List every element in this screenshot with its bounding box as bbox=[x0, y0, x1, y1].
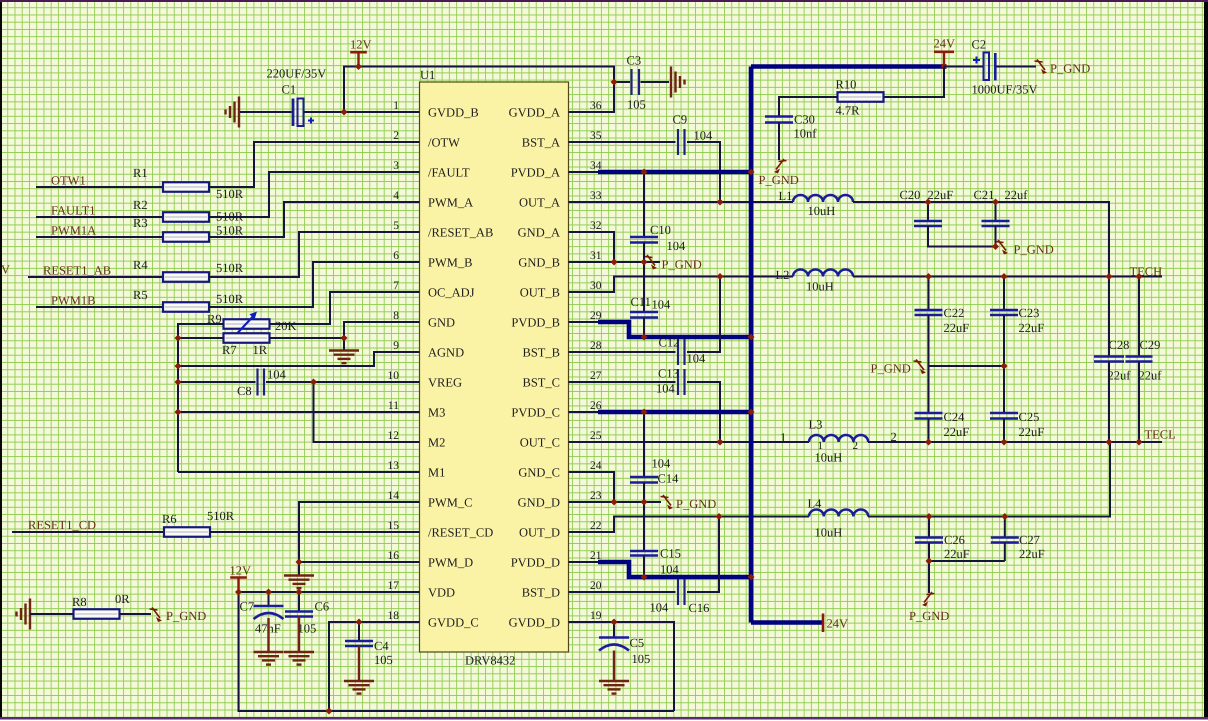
svg-text:M2: M2 bbox=[428, 436, 445, 450]
power port P_GND at GND_B bbox=[645, 255, 658, 270]
power port P_GND at C22 bus bbox=[914, 360, 927, 375]
sheet border top bbox=[0, 0, 1208, 2]
svg-text:OTW1: OTW1 bbox=[51, 174, 86, 188]
capacitor C6 105 bbox=[298, 592, 300, 611]
junction C1/pin1 bbox=[341, 109, 348, 116]
svg-text:L4: L4 bbox=[808, 497, 823, 511]
svg-text:BST_B: BST_B bbox=[522, 346, 560, 360]
svg-text:C30: C30 bbox=[794, 113, 815, 127]
wire PVDD_B stub bbox=[569, 321, 599, 323]
svg-text:R6: R6 bbox=[162, 512, 177, 526]
wire pin 1 GVDD_B stub bbox=[344, 111, 420, 113]
C5 ground stub bbox=[613, 651, 615, 682]
svg-text:22uF: 22uF bbox=[1019, 425, 1045, 439]
wire PVDD_A stub bbox=[569, 171, 599, 173]
junction at 1004.8,516.5 bbox=[1001, 513, 1008, 520]
wire C3 left bbox=[614, 81, 630, 83]
svg-text:C22: C22 bbox=[944, 306, 965, 320]
svg-text:23: 23 bbox=[590, 490, 602, 502]
svg-text:L2: L2 bbox=[776, 268, 790, 282]
junction C23 on TECH bbox=[1001, 273, 1008, 280]
svg-text:PVDD_C: PVDD_C bbox=[511, 406, 560, 420]
svg-text:510R: 510R bbox=[216, 224, 244, 238]
junction 12V tap top bbox=[355, 63, 362, 70]
capacitor C23 22uF bbox=[1003, 277, 1005, 311]
svg-text:22uF: 22uF bbox=[944, 425, 970, 439]
junction at 720,442 bbox=[717, 439, 724, 446]
inductor L4 10uH bbox=[809, 510, 868, 517]
svg-text:25: 25 bbox=[590, 430, 602, 442]
wire BST_A to C9 bbox=[569, 141, 676, 143]
resistor R2 bbox=[163, 212, 209, 222]
R9 wiper arrow bbox=[238, 312, 258, 334]
svg-text:9: 9 bbox=[393, 340, 399, 352]
svg-text:4.7R: 4.7R bbox=[836, 104, 861, 118]
svg-text:M3: M3 bbox=[428, 406, 445, 420]
svg-text:16: 16 bbox=[388, 550, 400, 562]
junction C26 bus bbox=[926, 558, 933, 565]
junction bus-R7 bbox=[175, 335, 182, 342]
svg-text:P_GND: P_GND bbox=[759, 173, 799, 187]
wire L3 to TECL bbox=[868, 441, 1162, 443]
junction C11 bottom on PVDD_B bbox=[641, 334, 648, 341]
capacitor C25 22uF bbox=[1003, 366, 1005, 413]
thick wire 24V bus vertical bbox=[749, 67, 754, 623]
power port P_GND at C30 bbox=[774, 159, 787, 174]
svg-text:7: 7 bbox=[393, 280, 399, 292]
power port 24V bottom bbox=[822, 614, 825, 633]
capacitor C30 10nf bbox=[765, 117, 793, 123]
junction at 928.5,276.5 bbox=[925, 273, 932, 280]
junction C4 tap bbox=[356, 619, 363, 626]
svg-text:P_GND: P_GND bbox=[676, 497, 716, 511]
svg-text:22uF: 22uF bbox=[928, 188, 954, 202]
wire P_GND bus C26-C27 bbox=[929, 560, 1005, 562]
junction C10 bottom bbox=[641, 259, 648, 266]
svg-text:/OTW: /OTW bbox=[428, 136, 460, 150]
wire pin9 AGND to left bus bbox=[178, 352, 420, 366]
svg-text:20: 20 bbox=[590, 580, 602, 592]
svg-text:TECL: TECL bbox=[1145, 428, 1176, 442]
wire VDD pin 17 bbox=[239, 591, 420, 593]
capacitor C5 105 bbox=[613, 622, 615, 638]
svg-text:105: 105 bbox=[632, 652, 651, 666]
junction at 928,202 bbox=[925, 199, 932, 206]
ground under C7 bbox=[254, 652, 284, 665]
svg-text:R2: R2 bbox=[133, 198, 148, 212]
wire RESET1_CD to R6 bbox=[12, 531, 164, 533]
junction at 929,561 bbox=[926, 558, 933, 565]
wire pin7 OC_ADJ to R9 bbox=[270, 292, 420, 324]
thick wire 24V top rail bbox=[751, 64, 944, 69]
svg-text:11: 11 bbox=[388, 400, 399, 412]
svg-text:C1: C1 bbox=[282, 83, 297, 97]
junction at 329,711 bbox=[326, 708, 333, 715]
svg-text:28: 28 bbox=[590, 340, 602, 352]
wire R5 to pin 6 bbox=[209, 262, 420, 307]
wire PVDD_D stub bbox=[569, 561, 599, 563]
svg-text:L1: L1 bbox=[779, 189, 793, 203]
svg-text:C27: C27 bbox=[1019, 533, 1040, 547]
svg-text:10uH: 10uH bbox=[808, 204, 836, 218]
svg-text:OC_ADJ: OC_ADJ bbox=[428, 286, 475, 300]
junction C29 on TECL bbox=[1136, 439, 1143, 446]
junction C16-OUT_D bbox=[716, 513, 723, 520]
svg-text:/FAULT: /FAULT bbox=[428, 166, 470, 180]
junction C3 tap bbox=[611, 79, 618, 86]
wire R9 left to bus bbox=[178, 324, 224, 472]
junction at 719,516.5 bbox=[716, 513, 723, 520]
svg-text:C3: C3 bbox=[627, 54, 642, 68]
svg-text:C28: C28 bbox=[1109, 338, 1130, 352]
wire R8 to P_GND bbox=[120, 613, 152, 615]
svg-text:VREG: VREG bbox=[428, 376, 462, 390]
wire PVDD_C stub bbox=[569, 411, 599, 413]
junction at 751,577 bbox=[748, 574, 755, 581]
svg-text:105: 105 bbox=[298, 622, 317, 636]
wire FAULT1 to R2 bbox=[36, 216, 163, 218]
capacitor C20 22uF bbox=[927, 202, 929, 221]
svg-text:13: 13 bbox=[388, 460, 400, 472]
svg-text:C24: C24 bbox=[944, 410, 966, 424]
svg-text:12: 12 bbox=[388, 430, 400, 442]
junction at 1004,366 bbox=[1001, 363, 1008, 370]
svg-text:17: 17 bbox=[388, 580, 400, 592]
resistor R10 bbox=[838, 92, 884, 102]
wire R7 left bbox=[178, 337, 224, 339]
capacitor C8 bbox=[258, 369, 265, 396]
wire VREG right of C8 to pin 10 bbox=[266, 381, 420, 383]
wire OUT_D to L4 bbox=[569, 517, 810, 533]
svg-text:OUT_D: OUT_D bbox=[519, 526, 560, 540]
wire C2 to P_GND bbox=[997, 66, 1037, 68]
junction at 359,622 bbox=[356, 619, 363, 626]
resistor R1 bbox=[163, 182, 209, 192]
svg-text:22uF: 22uF bbox=[944, 547, 970, 561]
wire PWM_C pin 14 riser bbox=[299, 502, 420, 575]
svg-text:P_GND: P_GND bbox=[909, 609, 949, 623]
svg-text:OUT_C: OUT_C bbox=[520, 436, 560, 450]
junction P_GND C20/C21 bbox=[992, 243, 999, 250]
junction C5 tap bbox=[611, 619, 618, 626]
junction C6 top bbox=[296, 589, 303, 596]
wire C30 to P_GND bbox=[778, 123, 780, 161]
capacitor C26 22uF bbox=[928, 517, 930, 538]
svg-text:C10: C10 bbox=[650, 223, 671, 237]
thick wire PVDD_C rail bbox=[598, 410, 751, 415]
svg-text:PWM1A: PWM1A bbox=[51, 224, 96, 238]
svg-text:2: 2 bbox=[393, 130, 399, 142]
junction M3 bus bbox=[175, 409, 182, 416]
wire BST_C to C13 bbox=[569, 381, 676, 383]
wire 12V rail down to bottom rail bbox=[239, 592, 675, 711]
junction at 929,516.5 bbox=[926, 513, 933, 520]
junction VREG bus bbox=[175, 379, 182, 386]
junction C7 top bbox=[265, 589, 272, 596]
wire GND_B pin 31 bbox=[569, 261, 661, 263]
svg-text:24: 24 bbox=[590, 460, 602, 472]
junction C28 on TECL bbox=[1106, 439, 1113, 446]
wire L1 to corner bbox=[853, 202, 1109, 356]
power port P_GND at C26 bbox=[922, 592, 935, 607]
svg-text:20K: 20K bbox=[275, 319, 297, 333]
capacitor C7 47nF bbox=[268, 592, 270, 606]
wire P_GND bus C22-C23 bbox=[929, 365, 1005, 367]
svg-text:104: 104 bbox=[660, 563, 680, 577]
svg-text:1R: 1R bbox=[253, 343, 268, 357]
capacitor C28 22uf bbox=[1094, 357, 1124, 362]
junction 24V bbox=[942, 64, 947, 69]
junction C9-OUT_A bbox=[717, 199, 724, 206]
wire C9 to OUT_A bbox=[687, 142, 720, 202]
wire OUT_C to L3 bbox=[569, 441, 810, 443]
junction at 751,172 bbox=[748, 169, 755, 176]
svg-text:6: 6 bbox=[393, 250, 399, 262]
capacitor C3 105 bbox=[632, 69, 640, 95]
junction C21 bbox=[992, 199, 999, 206]
svg-text:R7: R7 bbox=[222, 343, 237, 357]
resistor R4 bbox=[163, 272, 209, 282]
wire C28 lower to TECL bbox=[1108, 362, 1110, 443]
svg-text:RESET1_AB: RESET1_AB bbox=[43, 264, 111, 278]
svg-text:24V: 24V bbox=[934, 37, 956, 51]
svg-text:R1: R1 bbox=[133, 166, 148, 180]
svg-text:32: 32 bbox=[590, 220, 602, 232]
svg-text:1: 1 bbox=[393, 100, 399, 112]
capacitor C9 104 bbox=[678, 129, 685, 155]
wire C1 to pin1 junction bbox=[304, 111, 345, 113]
wire OTW1 to R1 bbox=[36, 186, 163, 188]
junction C26 on L4 line bbox=[926, 513, 933, 520]
wire R6 to pin 15 bbox=[210, 531, 420, 533]
svg-text:PWM1B: PWM1B bbox=[51, 294, 95, 308]
capacitor C14 104 bbox=[643, 412, 645, 477]
svg-text:510R: 510R bbox=[216, 261, 244, 275]
junction C22 on TECH bbox=[925, 273, 932, 280]
C4 ground stub bbox=[358, 646, 360, 681]
svg-text:C23: C23 bbox=[1019, 306, 1040, 320]
wire R7 right to GND pin 8 bbox=[270, 322, 420, 338]
svg-text:R10: R10 bbox=[836, 78, 857, 92]
svg-text:220UF/35V: 220UF/35V bbox=[267, 67, 327, 81]
resistor R7 bbox=[224, 333, 270, 343]
svg-text:22uF: 22uF bbox=[1019, 321, 1045, 335]
junction at 238.5,592 bbox=[235, 589, 242, 596]
junction AGND bus bbox=[175, 363, 182, 370]
ground on PWM riser bbox=[284, 576, 314, 589]
svg-text:24V: 24V bbox=[827, 617, 849, 631]
svg-text:C12: C12 bbox=[659, 336, 680, 350]
svg-text:GND_A: GND_A bbox=[518, 226, 560, 240]
junction at 644,172 bbox=[641, 169, 648, 176]
svg-text:15: 15 bbox=[388, 520, 400, 532]
svg-text:VDD: VDD bbox=[428, 586, 455, 600]
svg-text:BST_D: BST_D bbox=[522, 586, 560, 600]
junction at 751,412 bbox=[748, 409, 755, 416]
junction at 344,338 bbox=[341, 335, 348, 342]
svg-text:GND_D: GND_D bbox=[518, 496, 560, 510]
ground under C4 bbox=[344, 681, 374, 694]
wire GND_C pin 24 bbox=[569, 472, 615, 502]
junction GND_A/GND_B bbox=[611, 259, 618, 266]
junction PVDD_D to 24V bus bbox=[748, 574, 755, 581]
svg-text:C5: C5 bbox=[630, 636, 645, 650]
junction C14 on PVDD_C bbox=[641, 409, 648, 416]
ground left of C1 bbox=[226, 97, 240, 128]
svg-text:GND_C: GND_C bbox=[518, 466, 560, 480]
svg-text:C14: C14 bbox=[658, 472, 680, 486]
svg-text:C2: C2 bbox=[972, 38, 987, 52]
svg-text:BST_C: BST_C bbox=[522, 376, 560, 390]
svg-text:C25: C25 bbox=[1019, 410, 1040, 424]
junction at 1109,276.5 bbox=[1106, 273, 1113, 280]
svg-text:BST_A: BST_A bbox=[522, 136, 560, 150]
capacitor C16 104 bbox=[678, 579, 685, 605]
wire ground to C1 bbox=[240, 111, 292, 113]
inductor L3 10uH bbox=[809, 435, 868, 442]
svg-text:C21: C21 bbox=[974, 188, 995, 202]
svg-text:GVDD_C: GVDD_C bbox=[428, 616, 479, 630]
junction at 1139,276.5 bbox=[1136, 273, 1143, 280]
wire C13 to OUT_C bbox=[687, 382, 720, 442]
junction at 644,502 bbox=[641, 499, 648, 506]
svg-text:33: 33 bbox=[590, 190, 602, 202]
junction C27 on L4 line bbox=[1001, 513, 1008, 520]
svg-text:PWM_B: PWM_B bbox=[428, 256, 472, 270]
svg-text:GND: GND bbox=[428, 316, 455, 330]
junction at 299,562 bbox=[296, 559, 303, 566]
wire PWM_D pin 16 bbox=[299, 561, 420, 563]
junction GND_C/GND_D bbox=[611, 499, 618, 506]
C6 ground stub bbox=[298, 617, 300, 653]
svg-text:/RESET_AB: /RESET_AB bbox=[428, 226, 493, 240]
ground right of C3 bbox=[671, 67, 685, 98]
svg-text:C4: C4 bbox=[374, 639, 389, 653]
svg-text:TECH: TECH bbox=[1130, 265, 1163, 279]
capacitor C15 104 bbox=[643, 502, 645, 551]
resistor R8 bbox=[74, 609, 120, 619]
C7 ground stub bbox=[267, 618, 269, 652]
svg-text:10uH: 10uH bbox=[815, 526, 843, 540]
wire OUT_B to L2 bbox=[569, 277, 794, 293]
junction PWM_D tie bbox=[296, 559, 303, 566]
junction at 1139,442 bbox=[1136, 439, 1143, 446]
wire M1 pin 13 bbox=[178, 471, 420, 473]
svg-text:R5: R5 bbox=[133, 288, 148, 302]
junction C13-OUT_C bbox=[717, 439, 724, 446]
svg-text:35: 35 bbox=[590, 130, 602, 142]
svg-text:10nf: 10nf bbox=[794, 127, 818, 141]
svg-text:PWM_C: PWM_C bbox=[428, 496, 472, 510]
svg-text:36: 36 bbox=[590, 100, 602, 112]
svg-text:22uf: 22uf bbox=[1108, 369, 1132, 383]
junction at 1109,442 bbox=[1106, 439, 1113, 446]
svg-text:R4: R4 bbox=[133, 258, 148, 272]
junction at 614,82 bbox=[611, 79, 618, 86]
wire RESET1_AB to R4 bbox=[28, 276, 163, 278]
svg-text:104: 104 bbox=[650, 601, 670, 615]
wire PWM1B to R5 bbox=[36, 306, 163, 308]
junction at 178,366 bbox=[175, 363, 182, 370]
junction C25 on TECL bbox=[1001, 439, 1008, 446]
junction C29 on TECH bbox=[1136, 273, 1143, 280]
svg-text:1: 1 bbox=[780, 431, 786, 445]
junction at 928.5,442 bbox=[925, 439, 932, 446]
svg-text:12V: 12V bbox=[230, 564, 252, 578]
sheet border bottom bbox=[0, 717, 1208, 720]
junction 12V tap bbox=[235, 589, 242, 596]
wire C16 to OUT_D bbox=[687, 517, 719, 593]
wire BST_B to C12 bbox=[569, 351, 676, 353]
capacitor C22 22uF bbox=[928, 277, 930, 311]
junction bottom rail GVDD_C bbox=[326, 708, 333, 715]
wire GVDD_C pin 18 bbox=[329, 622, 420, 711]
ground left of R8 bbox=[17, 599, 31, 630]
svg-text:105: 105 bbox=[627, 98, 646, 112]
junction at 995.5,202 bbox=[992, 199, 999, 206]
capacitor C1 220UF/35V bbox=[292, 99, 295, 127]
wire VREG left of C8 bbox=[178, 381, 256, 383]
resistor R6 bbox=[164, 527, 210, 537]
junction C10 on PVDD_A bbox=[641, 169, 648, 176]
sheet border right bbox=[1204, 2, 1208, 721]
junction PVDD_A to 24V bus bbox=[748, 169, 755, 176]
junction at 720,276.5 bbox=[717, 273, 724, 280]
svg-text:P_GND: P_GND bbox=[166, 609, 206, 623]
svg-text:C8: C8 bbox=[237, 384, 252, 398]
junction C15 bottom on PVDD_D bbox=[641, 574, 648, 581]
junction PVDD_C to 24V bus bbox=[748, 409, 755, 416]
svg-text:104: 104 bbox=[656, 382, 676, 396]
svg-text:22uf: 22uf bbox=[1005, 188, 1029, 202]
svg-text:PVDD_A: PVDD_A bbox=[511, 166, 560, 180]
svg-text:V: V bbox=[1, 263, 10, 277]
svg-text:PVDD_D: PVDD_D bbox=[511, 556, 560, 570]
wire GVDD_D pin 19 bbox=[569, 622, 675, 711]
junction C23 bus bbox=[1001, 363, 1008, 370]
wire PWM1A to R3 bbox=[36, 236, 163, 238]
svg-text:P_GND: P_GND bbox=[1014, 243, 1054, 257]
power port P_GND at R8 bbox=[150, 608, 163, 623]
svg-text:27: 27 bbox=[590, 370, 602, 382]
wire GND_A pin 32 bbox=[569, 232, 615, 262]
wire BST_D to C16 bbox=[569, 591, 676, 593]
svg-text:C20: C20 bbox=[900, 188, 921, 202]
svg-text:10uH: 10uH bbox=[815, 451, 843, 465]
wire M2 pin 12 riser bbox=[314, 382, 420, 442]
svg-text:1000UF/35V: 1000UF/35V bbox=[972, 83, 1038, 97]
svg-text:C11: C11 bbox=[631, 295, 651, 309]
junction at 614,262 bbox=[611, 259, 618, 266]
junction R7 right bbox=[341, 335, 348, 342]
svg-text:P_GND: P_GND bbox=[1050, 62, 1090, 76]
capacitor C13 104 bbox=[678, 369, 685, 395]
svg-text:5: 5 bbox=[393, 220, 399, 232]
potentiometer R9 bbox=[224, 319, 270, 329]
svg-text:U1: U1 bbox=[420, 68, 435, 82]
svg-text:R3: R3 bbox=[133, 216, 148, 230]
wire C12 to OUT_B bbox=[687, 277, 720, 353]
wire C26 bus to P_GND bbox=[928, 561, 930, 593]
svg-text:104: 104 bbox=[652, 298, 672, 312]
power port P_GND at C20/C21 bbox=[996, 240, 1009, 255]
resistor R3 bbox=[163, 232, 209, 242]
svg-text:PVDD_B: PVDD_B bbox=[511, 316, 560, 330]
svg-text:R8: R8 bbox=[72, 595, 87, 609]
thick wire PVDD_D zigzag bbox=[598, 562, 751, 577]
svg-text:4: 4 bbox=[393, 190, 399, 202]
svg-text:30: 30 bbox=[590, 280, 602, 292]
